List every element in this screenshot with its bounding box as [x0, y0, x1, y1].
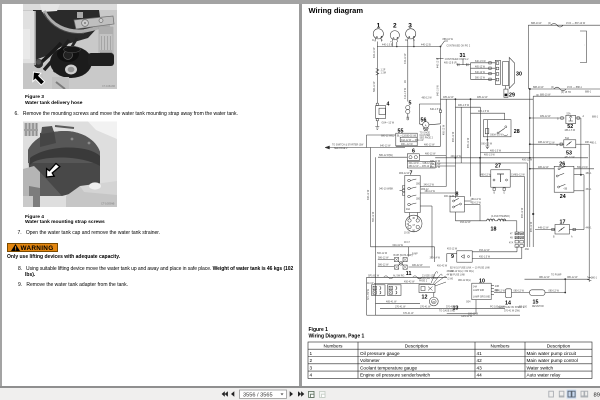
svg-text:2: 2 [393, 22, 397, 29]
wire bottom bus 315 [376, 312, 521, 315]
svg-text:485-41 W: 485-41 W [386, 300, 397, 303]
svg-text:30: 30 [412, 218, 415, 220]
svg-text:485-12 W: 485-12 W [422, 97, 433, 99]
svg-text:15 R — 888-1: 15 R — 888-1 [567, 86, 583, 89]
svg-text:080-1: 080-1 [591, 277, 598, 279]
svg-text:2: 2 [310, 358, 313, 363]
wire 55 bottom bus [396, 145, 441, 147]
wire 7 right to bus [420, 186, 446, 188]
svg-text:440-12 W: 440-12 W [404, 53, 407, 64]
svg-text:RESISTOR: RESISTOR [532, 306, 544, 308]
component 4 (fuel sender) [375, 102, 394, 130]
svg-text:4: 4 [310, 373, 313, 378]
svg-text:888-10 W: 888-10 W [443, 38, 454, 41]
svg-text:SP1-B2 W: SP1-B2 W [368, 288, 370, 300]
connector block B [388, 285, 402, 296]
svg-text:G04: G04 [466, 302, 471, 304]
component 15 (resistor) [512, 290, 567, 309]
svg-text:480-42 W: 480-42 W [412, 264, 423, 267]
wire top fused bus 1 [528, 22, 600, 27]
svg-text:30 17: 30 17 [404, 242, 411, 244]
svg-text:SEE PAGE 2: SEE PAGE 2 [334, 147, 348, 150]
svg-text:47A: 47A [509, 242, 514, 245]
wire right edge bus [583, 175, 585, 230]
wire right edge bus2 [588, 144, 590, 279]
component 7 (ignition switch) [402, 171, 421, 213]
junction node mid bundle [532, 213, 534, 215]
svg-text:IG: IG [405, 40, 408, 42]
svg-text:1 2M: 1 2M [381, 72, 386, 75]
next view icon (disabled) [320, 391, 326, 397]
svg-text:27: 27 [495, 164, 501, 170]
svg-text:370-41 W: 370-41 W [446, 306, 457, 308]
svg-text:580-1.5 W: 580-1.5 W [577, 167, 588, 169]
svg-text:480-12 W: 480-12 W [453, 131, 455, 142]
svg-text:SEE PAGE 2: SEE PAGE 2 [420, 137, 434, 140]
svg-text:A: A [561, 228, 563, 231]
svg-text:55: 55 [398, 129, 404, 135]
svg-text:889-10 W: 889-10 W [540, 93, 551, 96]
svg-text:586-12 W: 586-12 W [378, 257, 389, 260]
wire 55 left to down bus [367, 134, 396, 136]
svg-text:480-12 W: 480-12 W [522, 207, 524, 218]
svg-text:9: 9 [451, 254, 454, 260]
svg-text:LAMP 24B: LAMP 24B [473, 289, 484, 292]
arrow callout photo1 [33, 72, 45, 85]
connector block A [367, 282, 386, 295]
svg-text:(F): (F) [548, 23, 551, 25]
svg-text:CT-1082AB: CT-1082AB [102, 85, 115, 88]
svg-text:480-12 W: 480-12 W [424, 143, 435, 146]
component 55 (gauge cluster connector) [381, 129, 434, 146]
svg-text:888-1: 888-1 [592, 116, 599, 118]
svg-text:485-12 W: 485-12 W [443, 96, 454, 99]
single page icon [549, 391, 554, 397]
wire fused bus 2 [529, 86, 600, 94]
wire pump feed bus [525, 275, 592, 282]
svg-text:489-12 W: 489-12 W [540, 115, 551, 118]
svg-text:640-12 W: 640-12 W [475, 72, 486, 74]
svg-text:640-12 W: 640-12 W [368, 189, 370, 200]
svg-text:453-12 W: 453-12 W [460, 221, 471, 224]
wire labels (misc identifiers) [368, 57, 599, 315]
svg-text:TO PUMP: TO PUMP [551, 275, 562, 277]
connector pair on wire [376, 69, 379, 76]
svg-text:Description: Description [547, 343, 571, 348]
wire 15 junction riser [564, 279, 566, 292]
svg-text:44 W: 44 W [447, 275, 453, 277]
svg-text:B: B [494, 193, 496, 195]
wire riser to continuation [441, 41, 449, 47]
svg-text:485-1.5 W: 485-1.5 W [484, 154, 496, 156]
svg-text:080: 080 [495, 290, 500, 292]
svg-text:43: 43 [477, 365, 483, 370]
filler hump [40, 131, 56, 147]
svg-text:450-42 W: 450-42 W [437, 265, 448, 267]
svg-text:400-12 W: 400-12 W [522, 160, 533, 162]
svg-text:(2 W): (2 W) [448, 279, 454, 281]
svg-text:G80-1.5 W: G80-1.5 W [481, 144, 493, 146]
svg-text:48A: 48A [525, 248, 530, 251]
svg-text:486-12 W: 486-12 W [538, 166, 549, 169]
wire 27 feeds [479, 158, 481, 177]
svg-text:450-42 W: 450-42 W [404, 281, 415, 284]
svg-text:B.MP (NAT/LAMP): B.MP (NAT/LAMP) [394, 254, 413, 257]
svg-text:12 W: 12 W [549, 142, 555, 144]
component 56 (sender loop) [419, 104, 441, 131]
svg-text:Wiring Diagram, Page 1: Wiring Diagram, Page 1 [309, 334, 365, 340]
svg-text:080-12 W(L): 080-12 W(L) [458, 280, 471, 282]
svg-text:53A: 53A [565, 137, 570, 140]
wire fused feed 31 [444, 59, 471, 67]
wire horizontal gauge bus [377, 46, 440, 48]
svg-text:41: 41 [477, 351, 483, 356]
wire 56 to 6 vertical [440, 126, 442, 147]
svg-text:G80A-1.5 W: G80A-1.5 W [490, 134, 503, 137]
svg-text:100-12 W: 100-12 W [468, 313, 479, 315]
svg-text:340-12 W: 340-12 W [424, 184, 435, 187]
svg-text:4B0-12 W: 4B0-12 W [399, 173, 410, 175]
svg-text:480-12 W: 480-12 W [425, 153, 436, 156]
svg-text:Auto water relay: Auto water relay [527, 373, 562, 378]
svg-text:080-12 W: 080-12 W [549, 290, 560, 293]
component 27 (relay) [480, 164, 525, 195]
svg-text:481-1: 481-1 [591, 142, 598, 144]
svg-text:580-12 W: 580-12 W [475, 78, 486, 80]
component 29 [504, 86, 515, 99]
svg-text:53: 53 [566, 151, 572, 157]
svg-text:453-12 W: 453-12 W [479, 249, 490, 252]
two-page continuous icon [581, 391, 588, 397]
component 18 (resistor coils) [487, 215, 517, 233]
svg-text:888-1: 888-1 [585, 91, 592, 94]
left page text [25, 95, 82, 106]
svg-text:A: A [583, 115, 585, 118]
svg-text:3556 / 3565: 3556 / 3565 [243, 392, 273, 398]
svg-text:89: 89 [594, 392, 600, 398]
previous view icon [309, 391, 315, 397]
svg-text:040-10 W/BK: 040-10 W/BK [379, 187, 394, 190]
wire drop left lower [375, 157, 377, 315]
wire bottom bus 308 [380, 305, 505, 312]
svg-text:A14 W: A14 W [367, 282, 375, 285]
svg-text:1: 1 [310, 351, 313, 356]
component 14 (connector) [494, 289, 525, 309]
component horn below 12 [429, 293, 438, 306]
svg-text:Coolant temperature gauge: Coolant temperature gauge [360, 365, 417, 370]
svg-text:448-12 W: 448-12 W [538, 227, 549, 230]
svg-text:Main water pump control: Main water pump control [527, 358, 578, 363]
wire v 461 [460, 107, 462, 163]
svg-text:1: 1 [377, 22, 381, 29]
wire v 527 [526, 163, 528, 247]
svg-text:580-12 W: 580-12 W [373, 211, 375, 222]
svg-text:28: 28 [514, 129, 520, 135]
arrow to switch continuation [325, 144, 405, 150]
svg-text:480-12 W: 480-12 W [444, 196, 455, 198]
wire 485 mid [441, 96, 534, 100]
svg-text:D: D [504, 193, 506, 195]
wire gauge1 down to component 4 [376, 42, 378, 104]
wire into 7 left [400, 190, 403, 192]
two-page icon highlighted [567, 390, 577, 399]
svg-text:15: 15 [533, 300, 539, 306]
svg-text:480-12 W: 480-12 W [481, 174, 492, 177]
svg-text:580-12 W: 580-12 W [373, 81, 376, 92]
prev page button [231, 391, 234, 397]
wire gauge2 pins to bus [392, 42, 394, 47]
svg-text:080-12 W: 080-12 W [514, 290, 525, 293]
svg-text:31: 31 [460, 53, 466, 59]
svg-text:370-41 W (2W): 370-41 W (2W) [504, 311, 520, 313]
svg-text:1B0: 1B0 [416, 199, 421, 201]
first page button [222, 391, 228, 397]
svg-text:30: 30 [516, 72, 522, 78]
component 5 (sender) [406, 101, 412, 121]
svg-text:Engine oil pressure sender/swi: Engine oil pressure sender/switch [360, 373, 430, 378]
svg-text:440-1.5 B: 440-1.5 B [382, 44, 393, 47]
continuous icon [559, 391, 564, 397]
component 12 (water pump panel) [417, 256, 454, 300]
svg-text:Numbers: Numbers [323, 343, 343, 348]
wire 28 ground [481, 141, 493, 149]
svg-text:B2 W 10 FUSE LINK — 10 FUSE LI: B2 W 10 FUSE LINK — 10 FUSE LINK [450, 268, 490, 270]
svg-text:Water switch: Water switch [527, 365, 554, 370]
svg-text:S: S [381, 40, 383, 42]
svg-text:15 R — 887-10 W: 15 R — 887-10 W [566, 22, 586, 25]
component 52 (switch) [529, 112, 585, 174]
svg-text:488-12 W: 488-12 W [538, 141, 549, 144]
connector 30 [495, 57, 522, 88]
svg-text:080-12 W: 080-12 W [567, 276, 578, 279]
svg-text:4B: 4B [510, 238, 513, 240]
svg-text:(F): (F) [551, 87, 554, 89]
svg-text:1B0: 1B0 [416, 184, 421, 186]
svg-text:29: 29 [509, 93, 515, 99]
component 10 (lamp unit) [472, 279, 494, 300]
component key switch face [405, 213, 422, 233]
svg-text:485-12 W: 485-12 W [468, 137, 470, 148]
svg-text:TO SWITCH & STARTER (SW: TO SWITCH & STARTER (SW [332, 144, 364, 147]
svg-text:485-12 W: 485-12 W [477, 96, 488, 99]
svg-text:Description: Description [405, 343, 429, 348]
svg-text:390-14 W: 390-14 W [430, 256, 441, 259]
svg-text:Numbers: Numbers [490, 343, 510, 348]
next page button [290, 391, 293, 397]
svg-text:24: 24 [560, 194, 566, 200]
wires to connector 30 pins [471, 61, 496, 81]
wire down to component 5 [407, 42, 409, 102]
svg-text:PAGE 2: PAGE 2 [419, 280, 428, 283]
svg-text:410-1.5 W: 410-1.5 W [404, 87, 407, 99]
svg-text:34B-12 W: 34B-12 W [430, 164, 441, 166]
svg-text:Figure 1: Figure 1 [309, 327, 329, 333]
svg-text:580-12 R(W): 580-12 R(W) [379, 154, 393, 157]
svg-text:C(480)-12 W: C(480)-12 W [511, 174, 525, 177]
svg-text:24B: 24B [495, 286, 500, 288]
wire v 446 [445, 99, 447, 186]
svg-text:453-12 W: 453-12 W [471, 201, 482, 204]
wire fused lower bus [367, 274, 447, 315]
svg-text:485-12 W: 485-12 W [475, 66, 486, 68]
svg-text:448-1: 448-1 [586, 228, 593, 230]
wire top bus down link [527, 25, 529, 89]
wire 485 lower link [480, 150, 529, 153]
wire 580 to component 6 [378, 156, 407, 158]
svg-text:G04—12 W: G04—12 W [382, 122, 395, 125]
wire to 11 top [371, 244, 435, 257]
svg-text:640-12 W: 640-12 W [373, 47, 376, 58]
svg-text:(F AND THERMO): (F AND THERMO) [491, 215, 510, 218]
svg-text:B.MP: B.MP [412, 254, 418, 256]
wire 480 mid [455, 104, 480, 176]
component 28 (relay) [484, 120, 520, 141]
tank body [28, 131, 100, 196]
svg-text:3: 3 [408, 22, 412, 29]
svg-text:~5B: ~5B [563, 189, 568, 191]
svg-text:IG: IG [372, 40, 375, 42]
svg-text:370-41 W: 370-41 W [403, 312, 414, 315]
warning box [7, 243, 58, 253]
svg-text:17: 17 [412, 225, 415, 227]
svg-text:BL—12(680-02 W): BL—12(680-02 W) [397, 136, 416, 138]
wire v 470 [470, 99, 472, 196]
component 17 (switch) [535, 220, 584, 239]
wire lower bus 2 [374, 281, 430, 284]
svg-text:SP1-B2 W: SP1-B2 W [368, 274, 380, 277]
component 53 (switch) [529, 137, 592, 159]
bottom right block [66, 186, 117, 207]
svg-text:1B0-12: 1B0-12 [421, 189, 429, 191]
svg-text:440-12 W: 440-12 W [438, 57, 440, 68]
svg-text:TO GAGE GND: TO GAGE GND [439, 310, 456, 313]
svg-text:453-1: 453-1 [586, 189, 593, 191]
component 26/24 (switch block) [529, 162, 594, 201]
svg-text:640-41 W: 640-41 W [393, 244, 404, 247]
wire stack to 9 [516, 246, 518, 252]
page number box [240, 390, 287, 398]
svg-text:440-12 B: 440-12 B [421, 44, 431, 47]
svg-text:4T: 4T [510, 234, 513, 236]
svg-text:485-12 W: 485-12 W [430, 161, 441, 163]
gauge 1 (oil pressure gauge) [372, 22, 383, 42]
svg-text:11: 11 [406, 271, 412, 277]
wire v 455 [454, 99, 456, 198]
base left [23, 166, 40, 207]
wire 485 feed to 28 [471, 110, 505, 120]
arrow callout photo2 [47, 164, 60, 178]
svg-text:A: A [571, 236, 573, 239]
connector stack [510, 221, 523, 247]
svg-text:486-1.5 W: 486-1.5 W [565, 130, 576, 132]
svg-text:485-12 B (F): 485-12 B (F) [444, 63, 457, 65]
svg-text:CONTINUED ON PG 2: CONTINUED ON PG 2 [447, 46, 471, 48]
svg-text:453-12 W: 453-12 W [447, 248, 458, 250]
continuation stub 2 [436, 58, 444, 60]
svg-text:640-12 W: 640-12 W [380, 145, 391, 148]
svg-text:485-12 W: 485-12 W [444, 124, 446, 135]
svg-text:52A: 52A [567, 112, 572, 115]
svg-text:586-12 W: 586-12 W [377, 253, 388, 255]
svg-text:19 50: 19 50 [404, 233, 411, 235]
wire 390 drop to 12 fan [434, 247, 436, 262]
svg-text:Voltmeter: Voltmeter [360, 358, 380, 363]
fuse link labels [450, 268, 490, 277]
svg-text:586-12 W: 586-12 W [378, 264, 389, 267]
toolbar widgets [0, 388, 600, 400]
svg-text:Wiring diagram: Wiring diagram [309, 6, 364, 15]
svg-text:Main water pump circuit: Main water pump circuit [527, 351, 577, 356]
svg-text:485-1.5 W: 485-1.5 W [478, 110, 490, 113]
gauge 2 (voltmeter) [390, 22, 399, 43]
svg-text:CONTINUED ON PG 2: CONTINUED ON PG 2 [445, 59, 469, 61]
svg-text:34A: 34A [473, 286, 478, 289]
bus 530 vertical [529, 89, 531, 247]
connector bracket [580, 31, 587, 63]
svg-text:-: - [397, 42, 398, 44]
svg-text:19: 19 [407, 224, 410, 226]
svg-text:485-12 W: 485-12 W [531, 221, 533, 232]
svg-text:42: 42 [477, 358, 483, 363]
svg-text:10 FUSE LINK: 10 FUSE LINK [450, 275, 466, 277]
svg-text:4: 4 [387, 102, 390, 108]
svg-text:485-1.5 W: 485-1.5 W [490, 150, 502, 153]
svg-text:PG 100: PG 100 [519, 306, 528, 308]
svg-text:A: A [425, 123, 427, 127]
svg-text:14: 14 [505, 301, 511, 307]
svg-text:640-1.5 W: 640-1.5 W [430, 108, 442, 111]
component 8 (relay) [450, 192, 482, 221]
last page button [298, 391, 304, 397]
svg-text:PG 100-12 W: PG 100-12 W [490, 305, 505, 308]
svg-text:080-12 W: 080-12 W [539, 276, 550, 279]
gauge 3 (coolant temperature gauge) [405, 22, 416, 42]
svg-text:B: B [557, 119, 559, 121]
svg-text:B: B [553, 237, 555, 239]
svg-text:(F): (F) [536, 95, 539, 97]
svg-text:(F) 15 TR: (F) 15 TR [561, 92, 571, 94]
svg-text:44: 44 [477, 373, 483, 378]
wire bottom bus 303 [376, 300, 421, 303]
wire 8 bottom to coil 18 [455, 212, 486, 224]
svg-text:3: 3 [310, 365, 313, 370]
svg-text:640-1.5 W: 640-1.5 W [475, 61, 486, 63]
component 11 (flasher) [378, 254, 430, 277]
svg-text:CT-1083AB: CT-1083AB [101, 202, 115, 206]
wire down to 56 loop [440, 47, 442, 105]
svg-text:10: 10 [479, 279, 485, 285]
wire 96 feed right [533, 93, 600, 247]
svg-text:B: B [557, 145, 559, 147]
svg-text:888-10 W: 888-10 W [531, 22, 542, 25]
svg-text:28: 28 [404, 80, 407, 83]
svg-text:450-42: 450-42 [447, 271, 455, 273]
svg-text::: : [584, 44, 585, 47]
svg-text:640-1.5 W: 640-1.5 W [438, 84, 440, 96]
svg-text:18: 18 [491, 227, 497, 233]
component 9 (diode relay) [447, 249, 522, 262]
wire left drop to lower section [370, 148, 372, 247]
wire 10 bottom [447, 300, 476, 318]
svg-text:450-1.5 W: 450-1.5 W [479, 256, 491, 259]
svg-text:480-1: 480-1 [586, 173, 593, 175]
svg-text:Oil pressure gauge: Oil pressure gauge [360, 351, 400, 356]
svg-text:12: 12 [422, 295, 428, 301]
svg-text:480-1.5 W: 480-1.5 W [458, 104, 470, 107]
svg-text:49A: 49A [406, 208, 411, 211]
svg-text:LAMP GROUND: LAMP GROUND [473, 296, 490, 299]
svg-text:888-10 W: 888-10 W [533, 86, 544, 89]
